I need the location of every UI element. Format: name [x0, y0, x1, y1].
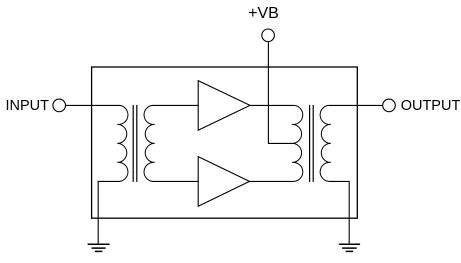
ground GND1 (left) — [88, 244, 110, 251]
wire: A1 output to T2 primary top lead — [250, 104, 294, 106]
wire: T2 secondary top lead to OUTPUT terminal — [329, 104, 383, 106]
ground GND2 (right) — [339, 244, 360, 251]
wire: A2 output to T2 primary bottom lead — [250, 180, 295, 182]
wire: T1 primary bottom lead to ground — [98, 181, 119, 244]
INPUT terminal circle — [53, 99, 66, 112]
transformer T2 secondary winding — [320, 105, 331, 181]
svg-text:+VB: +VB — [248, 5, 279, 22]
wire: T2 secondary bottom lead to ground — [329, 181, 350, 244]
svg-text:OUTPUT: OUTPUT — [401, 98, 461, 114]
OUTPUT terminal circle — [383, 99, 396, 112]
svg-text:INPUT: INPUT — [6, 98, 50, 114]
outer box — [92, 67, 358, 218]
wire: +VB terminal to T2 primary center tap — [268, 42, 292, 143]
wire: T1 secondary bottom lead to amplifier A2 input — [153, 180, 199, 182]
transformer T2 primary winding — [292, 105, 303, 181]
transformer T1 core — [133, 105, 137, 182]
wire: INPUT terminal to T1 primary top lead — [66, 104, 120, 106]
transformer T2 core — [310, 105, 314, 182]
transformer T1 secondary winding — [144, 105, 155, 181]
wire: T1 secondary top lead to amplifier A1 input — [153, 104, 199, 106]
+VB terminal circle — [262, 29, 275, 42]
op-amp A2 (bottom amplifier) — [198, 157, 249, 207]
transformer T1 primary winding — [117, 105, 128, 181]
op-amp A1 (top amplifier) — [198, 81, 250, 131]
